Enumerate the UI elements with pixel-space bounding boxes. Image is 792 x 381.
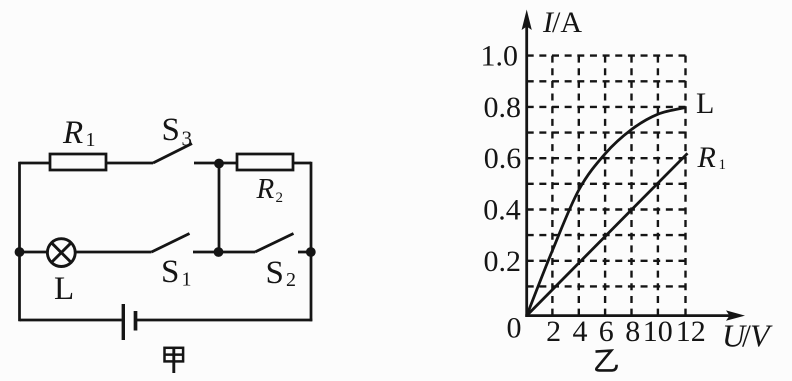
svg-text:L: L — [54, 271, 74, 307]
svg-text:0.6: 0.6 — [484, 142, 522, 175]
svg-text:4: 4 — [573, 315, 588, 348]
svg-text:6: 6 — [599, 315, 614, 348]
svg-text:2: 2 — [276, 190, 284, 206]
svg-text:S: S — [162, 112, 180, 148]
svg-text:1: 1 — [86, 129, 96, 151]
svg-text:0.8: 0.8 — [484, 91, 522, 124]
svg-text:2: 2 — [546, 315, 561, 348]
svg-text:R: R — [62, 115, 83, 151]
svg-text:0.4: 0.4 — [483, 194, 521, 227]
svg-text:12: 12 — [676, 315, 706, 348]
svg-text:V: V — [750, 318, 773, 354]
svg-text:1: 1 — [182, 269, 192, 291]
svg-text:L: L — [696, 87, 714, 120]
svg-text:0.2: 0.2 — [484, 245, 522, 278]
svg-text:10: 10 — [643, 315, 673, 348]
svg-text:1: 1 — [719, 157, 727, 173]
svg-text:8: 8 — [625, 315, 640, 348]
svg-text:/A: /A — [552, 6, 582, 39]
svg-text:S: S — [161, 254, 179, 290]
svg-text:1.0: 1.0 — [481, 40, 519, 73]
svg-text:0: 0 — [507, 312, 522, 345]
svg-text:S: S — [266, 255, 284, 291]
svg-text:3: 3 — [182, 127, 193, 151]
svg-text:2: 2 — [286, 269, 296, 291]
svg-text:R: R — [256, 173, 275, 205]
svg-text:R: R — [697, 141, 716, 174]
